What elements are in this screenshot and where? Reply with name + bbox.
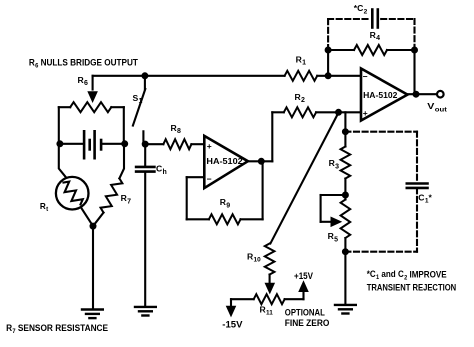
svg-text:TRANSIENT REJECTION: TRANSIENT REJECTION [367, 282, 457, 292]
svg-text:OPTIONAL: OPTIONAL [285, 308, 325, 318]
svg-text:FINE ZERO: FINE ZERO [285, 318, 330, 328]
svg-text:−: − [207, 174, 212, 184]
svg-text:+: + [363, 108, 368, 118]
svg-text:-15V: -15V [222, 319, 242, 329]
svg-text:+: + [207, 141, 212, 151]
svg-text:HA-5102: HA-5102 [363, 90, 398, 100]
svg-text:−: − [363, 72, 368, 82]
svg-text:HA-5102: HA-5102 [206, 156, 243, 166]
svg-text:+15V: +15V [294, 271, 313, 281]
